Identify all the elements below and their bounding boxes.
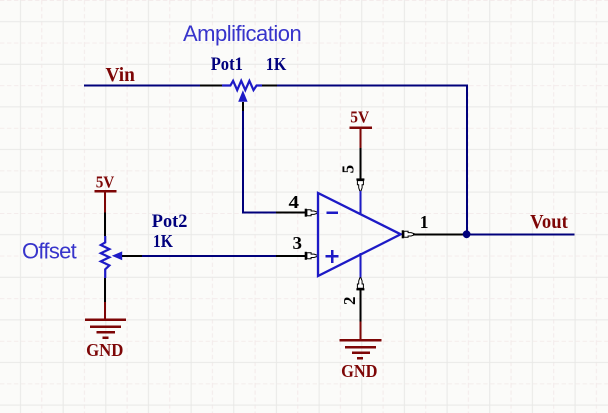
pin 1 output symbol (402, 230, 415, 238)
power symbol 5V (right) (350, 108, 373, 149)
op-amp U1 triangle (318, 193, 401, 276)
wire pot1 right pin (black) (262, 85, 278, 87)
potentiometer R pot2 zigzag (101, 236, 110, 278)
pin 5 symbol (down) (356, 178, 364, 191)
pot1 wiper arrow (238, 90, 247, 102)
pin 1 lead (black) (413, 233, 466, 235)
svg-text:5: 5 (338, 165, 357, 174)
svg-text:1K: 1K (153, 231, 173, 251)
pin 2 lead (blue) (359, 253, 361, 278)
svg-text:Offset: Offset (22, 239, 77, 264)
svg-text:5V: 5V (96, 173, 115, 192)
wire Vin horizontal (84, 85, 200, 87)
ground GND (right) (339, 322, 381, 382)
svg-text:2: 2 (340, 296, 359, 305)
pot2 wiper pin (black) (122, 255, 142, 257)
op-amp plus sign (326, 250, 339, 263)
wire pin2 to ground (black) (359, 289, 361, 322)
wire 5V to pin5 (black) (359, 148, 361, 180)
svg-text:Vin: Vin (106, 64, 135, 86)
pin 3 lead (black) (276, 255, 306, 257)
pot1 wiper pin (black) (242, 102, 244, 111)
svg-text:3: 3 (293, 233, 303, 253)
svg-text:Amplification: Amplification (183, 21, 301, 46)
wire top to right corner (277, 86, 468, 235)
pin 4 lead (black) (276, 212, 306, 214)
wire Vout (466, 233, 574, 235)
svg-text:Pot1: Pot1 (211, 54, 243, 75)
svg-text:1: 1 (420, 212, 429, 232)
junction node (463, 230, 471, 238)
wire pot1 left pin (black) (200, 85, 222, 87)
svg-text:Pot2: Pot2 (152, 211, 188, 232)
wire 5V to pot2 (black) (104, 212, 106, 236)
pot2 wiper arrow (112, 251, 122, 260)
ground GND (left) (85, 302, 126, 360)
pin 3 symbol (305, 252, 318, 260)
wire wiper to pin3 (142, 255, 276, 257)
pin 2 symbol (up) (356, 278, 364, 291)
svg-text:1K: 1K (266, 54, 287, 74)
power symbol 5V (left) (95, 173, 117, 213)
wire wiper to pin4 (243, 111, 276, 213)
potentiometer R pot1 zigzag (222, 81, 262, 90)
svg-text:4: 4 (289, 192, 300, 212)
svg-text:Vout: Vout (530, 212, 568, 233)
pin 4 symbol (305, 209, 318, 217)
svg-text:GND: GND (86, 340, 123, 360)
wire pot2 to ground (black) (104, 278, 106, 302)
svg-text:GND: GND (341, 361, 377, 381)
svg-text:5V: 5V (350, 108, 370, 127)
op-amp minus sign (327, 212, 339, 215)
pin 5 lead (blue) (359, 191, 361, 215)
